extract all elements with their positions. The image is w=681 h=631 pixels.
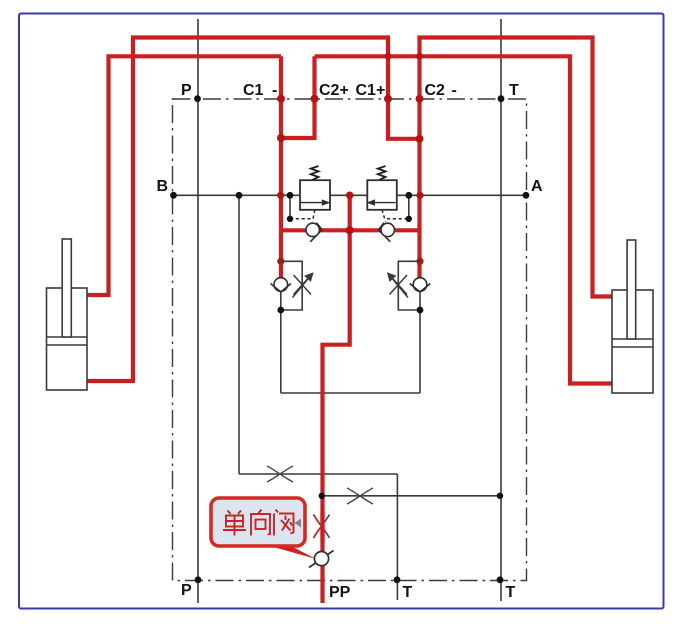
svg-text:A: A: [531, 178, 543, 195]
svg-text:C2: C2: [425, 82, 446, 99]
svg-text:P: P: [181, 582, 192, 599]
svg-text:T: T: [509, 82, 519, 99]
svg-text:C1: C1: [243, 82, 264, 99]
svg-text:-: -: [272, 82, 277, 99]
svg-text:T: T: [506, 584, 516, 601]
svg-text:PP: PP: [329, 584, 351, 601]
svg-text:B: B: [157, 178, 169, 195]
svg-text:P: P: [181, 82, 192, 99]
svg-text:T: T: [403, 584, 413, 601]
svg-text:C2+: C2+: [319, 82, 349, 99]
svg-text:C1+: C1+: [356, 82, 386, 99]
svg-text:-: -: [452, 82, 457, 99]
